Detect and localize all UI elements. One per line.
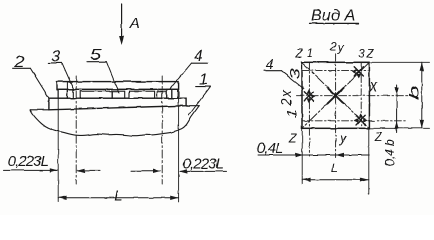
- svg-text:L: L: [331, 161, 338, 175]
- bar tick left: [66, 82, 68, 90]
- leader label 5: [87, 46, 119, 93]
- svg-text:5: 5: [90, 46, 102, 64]
- svg-text:Z: Z: [288, 132, 297, 146]
- support axis right (dash-dot): [161, 76, 163, 184]
- arrow A (view direction): [119, 4, 124, 45]
- leader label 3: [48, 48, 74, 90]
- dimension 0.223L left: [3, 153, 100, 173]
- dimension 0.4L: [257, 140, 370, 157]
- svg-text:Z: Z: [366, 49, 375, 61]
- svg-text:L: L: [114, 188, 122, 205]
- support mark top-right: [352, 67, 364, 79]
- center line y-axis (dash-dot): [335, 54, 337, 158]
- dimension L (left view): [58, 188, 178, 205]
- svg-text:Z: Z: [294, 49, 303, 61]
- svg-text:3: 3: [358, 49, 365, 61]
- extension line right end: [178, 90, 180, 202]
- svg-text:A: A: [129, 15, 140, 32]
- svg-text:Z: Z: [374, 130, 383, 144]
- support mark bottom-right: [354, 113, 368, 125]
- svg-text:y: y: [339, 131, 348, 146]
- diagonal TL-BR: [302, 62, 369, 128]
- svg-text:1: 1: [199, 71, 208, 88]
- svg-text:0,4L: 0,4L: [257, 140, 284, 157]
- dimension b: [369, 62, 429, 128]
- gauge block stack left: [58, 89, 73, 98]
- support mark left-middle: [304, 89, 316, 103]
- dimension 0.223L right: [131, 155, 227, 173]
- svg-text:2x: 2x: [279, 89, 294, 107]
- support axis left (dash-dot): [75, 76, 77, 184]
- leader label 2: [13, 52, 49, 97]
- dimension L (view A): [302, 128, 369, 193]
- gauge blocks middle row: [80, 91, 167, 98]
- svg-text:4: 4: [194, 48, 203, 65]
- svg-text:4: 4: [266, 56, 274, 72]
- svg-text:0,223L: 0,223L: [8, 153, 49, 170]
- leader label 4: [170, 48, 207, 89]
- inner section line top (dash-dot): [302, 70, 369, 72]
- inner section line bottom (dash-dot): [302, 120, 407, 122]
- plate outline (view A): [302, 62, 369, 128]
- svg-text:0,223L: 0,223L: [183, 155, 224, 172]
- svg-text:1: 1: [285, 109, 299, 119]
- gauge block stack right: [167, 89, 178, 98]
- svg-text:0,4 b: 0,4 b: [382, 139, 397, 166]
- dimension 0.4b: [382, 85, 399, 167]
- title Vid A: [310, 7, 359, 24]
- svg-text:1: 1: [307, 48, 313, 60]
- leader label 1: [189, 71, 211, 115]
- inner section line right (dash-dot): [360, 62, 362, 128]
- leader label 4 (view A): [264, 56, 304, 89]
- diagonal TR-BL: [302, 62, 369, 128]
- straightedge 4 (top bar): [57, 82, 179, 90]
- center cross bold: [328, 88, 344, 104]
- svg-text:b: b: [407, 86, 422, 100]
- center line x-axis (dash-dot): [296, 95, 409, 97]
- base 1 (surface plate with freehand break line): [30, 106, 199, 136]
- svg-text:y: y: [337, 41, 345, 55]
- extension line left end: [57, 90, 59, 202]
- svg-text:2: 2: [329, 41, 337, 53]
- svg-text:x: x: [369, 78, 379, 96]
- inner section line left (dash-dot): [308, 62, 310, 156]
- plate 2 (lower bar): [49, 98, 186, 110]
- svg-text:Вид А: Вид А: [311, 7, 356, 24]
